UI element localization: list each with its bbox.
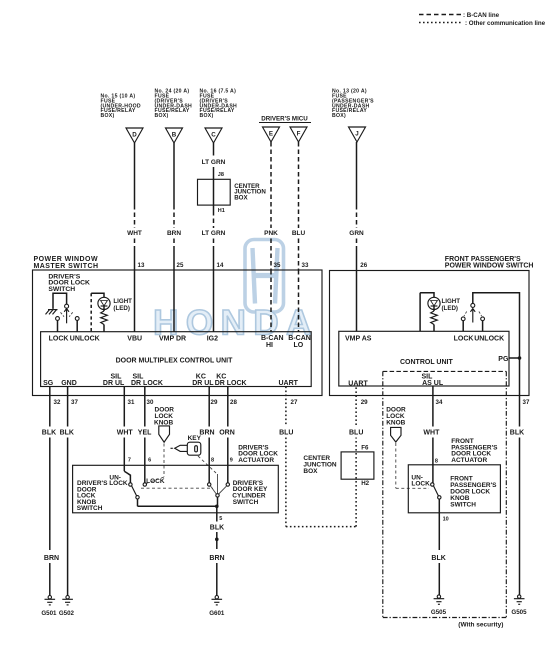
wire UART (passenger) dotted communication line [349,386,363,527]
svg-text:WHT: WHT [117,430,134,437]
svg-text:BOX: BOX [234,195,248,202]
ground G501 [41,596,57,618]
svg-text:PNK: PNK [264,230,278,237]
light LED with resistor (passenger switch) [420,293,460,332]
svg-text:UNLOCK: UNLOCK [70,336,100,343]
svg-text:29: 29 [211,399,218,406]
svg-text:LT GRN: LT GRN [202,159,226,166]
wire pin25 to VMP DR [173,270,175,332]
svg-text:SG: SG [43,380,54,387]
wire SIL DR LOCK YEL pin 6 [138,387,152,483]
svg-text:LOCK: LOCK [454,336,474,343]
wire GRN from fuse J to pin 26 [349,142,364,271]
svg-text:34: 34 [436,399,443,406]
svg-text:25: 25 [177,262,184,269]
svg-text:WHT: WHT [127,230,142,237]
UN-LOCK label (passenger) [411,474,430,487]
terminal SIL AS UL [422,374,444,388]
svg-text:UART: UART [279,380,299,387]
svg-text:BOX): BOX) [332,113,346,119]
svg-text:DR LOCK: DR LOCK [131,380,163,387]
front passenger's door lock actuator label [451,438,498,464]
svg-text:WHT: WHT [423,430,440,437]
svg-text:SWITCH: SWITCH [77,505,103,512]
terminal SIL DR LOCK [131,374,163,388]
svg-text:CONTROL UNIT: CONTROL UNIT [400,359,453,366]
center junction box (top) [198,179,267,214]
center junction box (middle) F6 H2 [303,445,374,487]
driver's door switch box [73,465,279,513]
svg-text:POWER WINDOW SWITCH: POWER WINDOW SWITCH [445,262,534,269]
svg-text:BOX): BOX) [101,113,115,119]
svg-text:H1: H1 [218,208,225,214]
svg-text:G505: G505 [431,609,447,616]
driver's door key cylinder switch label [232,480,268,506]
svg-text:VBU: VBU [127,336,142,343]
wire BLU B-CAN from F to pin 33 [292,142,306,270]
svg-text:8: 8 [211,458,214,464]
svg-text:UNLOCK: UNLOCK [474,336,504,343]
svg-text:37: 37 [71,399,78,406]
svg-text:5: 5 [219,516,222,522]
svg-text:E: E [269,131,273,138]
wire pin13 to VBU [134,270,136,332]
key symbol [171,435,217,473]
driver's door lock switch [46,293,80,332]
svg-text:LO: LO [294,342,304,349]
svg-text:SWITCH: SWITCH [48,286,75,293]
svg-text:LT GRN: LT GRN [202,230,226,237]
svg-text:(With security): (With security) [458,621,503,628]
driver's door key cylinder switch [208,474,230,508]
passenger window lock/unlock switch [461,293,519,358]
fuse J connector triangle [349,127,366,142]
svg-text:(LED): (LED) [113,305,129,312]
svg-text:J8: J8 [218,172,224,178]
svg-text:BOX): BOX) [200,113,214,119]
passenger knob switch contact and arm [431,483,441,513]
svg-text:KNOB: KNOB [386,420,405,427]
ground G505 left [431,595,447,616]
driver knob switch unlock contact and arm [124,471,216,506]
fuse J No.13 (20 A) label [332,89,374,120]
svg-text:BLK: BLK [42,430,56,437]
svg-text:26: 26 [360,262,367,269]
wire pin35 to B-CAN HI [270,270,272,332]
svg-text:BRN: BRN [167,230,181,237]
svg-text:IG2: IG2 [207,336,218,343]
svg-text:: B-CAN line: : B-CAN line [463,12,500,19]
svg-text:14: 14 [217,262,224,269]
wire LT GRN from fuse C into center junction box [202,143,226,180]
ground G601 [209,596,225,618]
svg-text:BLU: BLU [279,430,293,437]
wire GND BLK to G502 [60,387,74,596]
wire KC DR UL BRN pin 8 [199,387,214,483]
svg-text:ACTUATOR: ACTUATOR [451,457,487,464]
wire PNK B-CAN from E to pin 35 [264,142,278,270]
svg-text:G505: G505 [511,609,527,616]
svg-text:J: J [355,131,359,138]
svg-text:HI: HI [266,342,273,349]
wire WHT from fuse D to pin 13 [127,143,142,270]
front passenger's power window switch box [330,256,534,396]
svg-text:F6: F6 [361,445,369,452]
fuse B connector triangle [166,128,183,143]
terminal PG and wire to pin 37 [498,356,521,363]
svg-text:BLK: BLK [431,555,445,562]
terminal SIL DR UL [103,374,125,388]
svg-text:6: 6 [148,458,151,464]
svg-text:35: 35 [274,262,281,269]
svg-text:LOCK: LOCK [411,480,430,487]
svg-text:LOCK: LOCK [109,480,128,487]
fuse C No.16 (7.5 A) label [200,89,238,120]
svg-text:BRN: BRN [199,430,214,437]
svg-text:13: 13 [138,262,145,269]
light LED with resistor (master switch) [91,293,132,332]
front passenger's door lock knob switch label [450,476,497,509]
fuse D connector triangle [126,128,143,143]
svg-text:8: 8 [435,459,438,465]
svg-text:DR UL: DR UL [103,380,125,387]
fuse D No.15 (10 A) label [101,94,141,120]
svg-text:MASTER SWITCH: MASTER SWITCH [34,263,99,270]
svg-text:UART: UART [348,381,368,388]
svg-text:37: 37 [523,399,530,406]
LOCK label and contact (driver knob switch) [143,478,165,486]
terminal KC DR LOCK [215,374,247,388]
svg-text:G502: G502 [59,610,75,617]
fuse C connector triangle [205,128,222,143]
svg-text:B: B [172,132,177,139]
ground G502 [59,596,75,618]
svg-text:BLU: BLU [292,230,306,237]
svg-text:DR LOCK: DR LOCK [215,380,247,387]
svg-text:9: 9 [230,458,233,464]
wire dotted bottom run [286,526,356,528]
svg-text:D: D [132,132,137,139]
svg-text:BRN: BRN [44,555,59,562]
svg-text:BOX: BOX [303,468,318,475]
svg-text:: Other communication line: : Other communication line [465,20,546,27]
svg-text:SWITCH: SWITCH [450,501,476,508]
wire LT GRN from junction box H1 to pin 14 [202,205,226,270]
svg-text:DR UL: DR UL [192,380,214,387]
svg-text:BOX): BOX) [155,113,169,119]
svg-text:PG: PG [498,356,509,363]
svg-text:BLK: BLK [210,525,224,532]
svg-text:YEL: YEL [138,430,152,437]
security dashed box [383,371,507,628]
svg-text:DRIVER'S MICU: DRIVER'S MICU [261,116,308,123]
UN-LOCK label (driver) [109,474,128,487]
svg-text:GRN: GRN [349,230,364,237]
wire SG BLK BRN to G501 [42,387,59,596]
svg-text:33: 33 [302,262,309,269]
svg-text:ACTUATOR: ACTUATOR [238,457,274,464]
svg-text:DOOR MULTIPLEX CONTROL UNIT: DOOR MULTIPLEX CONTROL UNIT [116,358,234,365]
svg-text:27: 27 [291,399,298,406]
front passenger's door lock knob switch box [408,465,500,513]
door lock knob (passenger) [386,407,429,489]
terminal B-CAN HI [261,335,284,349]
legend B-CAN line [419,12,500,19]
control unit box (passenger) [339,331,509,386]
driver's door lock knob switch label [77,480,108,512]
svg-text:LOCK: LOCK [49,336,69,343]
pin 10 wire BLK to G505 left [431,513,448,595]
legend Other communication line [419,20,546,27]
driver's door lock actuator label [238,444,278,464]
door multiplex control unit box [41,332,312,387]
pin 37 (passenger) wire BLK to G505 right [510,358,530,595]
wire SIL DR UL WHT pin 7 [117,387,134,472]
driver's door lock switch label [48,273,90,293]
svg-text:32: 32 [54,399,61,406]
svg-text:C: C [211,132,216,139]
pin 5 wire BLK BRN to G601 [209,506,224,595]
svg-text:30: 30 [147,399,154,406]
svg-text:SWITCH: SWITCH [233,499,259,506]
svg-text:KEY: KEY [188,435,202,442]
terminal B-CAN LO [288,335,311,349]
svg-text:ORN: ORN [219,430,235,437]
mechanical link dashed (knob to key cylinder) [141,487,213,489]
fuse B No.24 (20 A) label [155,89,193,120]
terminal KC DR UL [192,374,214,388]
wire pin33 to B-CAN LO [298,270,300,332]
wire pin14 to IG2 [213,270,215,332]
connector E triangle [263,127,280,142]
pin 34 wire WHT to knob switch [423,386,443,483]
wire BRN from fuse B to pin 25 [167,143,181,270]
svg-text:G501: G501 [41,610,57,617]
svg-text:F: F [297,131,301,138]
DRIVER'S MICU label [259,116,311,123]
svg-text:10: 10 [443,516,449,522]
svg-text:(LED): (LED) [442,305,459,312]
svg-text:29: 29 [361,399,368,406]
ground G505 right [511,595,527,616]
svg-text:28: 28 [230,399,237,406]
svg-text:BRN: BRN [209,555,224,562]
svg-text:BLU: BLU [349,430,363,437]
svg-text:31: 31 [128,399,135,406]
svg-text:GND: GND [61,380,77,387]
svg-text:G601: G601 [209,610,225,617]
svg-text:7: 7 [128,458,131,464]
svg-text:LOCK: LOCK [146,478,165,485]
wire UART (driver) dotted communication line [279,387,293,527]
door lock knob (driver) [147,407,175,484]
wire KC DR LOCK ORN pin 9 [219,387,235,483]
svg-text:BLK: BLK [510,430,524,437]
connector F triangle [290,127,307,142]
power window master switch box [33,256,323,395]
svg-text:VMP DR: VMP DR [159,336,186,343]
svg-text:VMP AS: VMP AS [345,336,372,343]
wire pin26 to VMP AS [356,271,358,332]
svg-text:H2: H2 [361,480,369,487]
svg-text:BLK: BLK [60,430,74,437]
